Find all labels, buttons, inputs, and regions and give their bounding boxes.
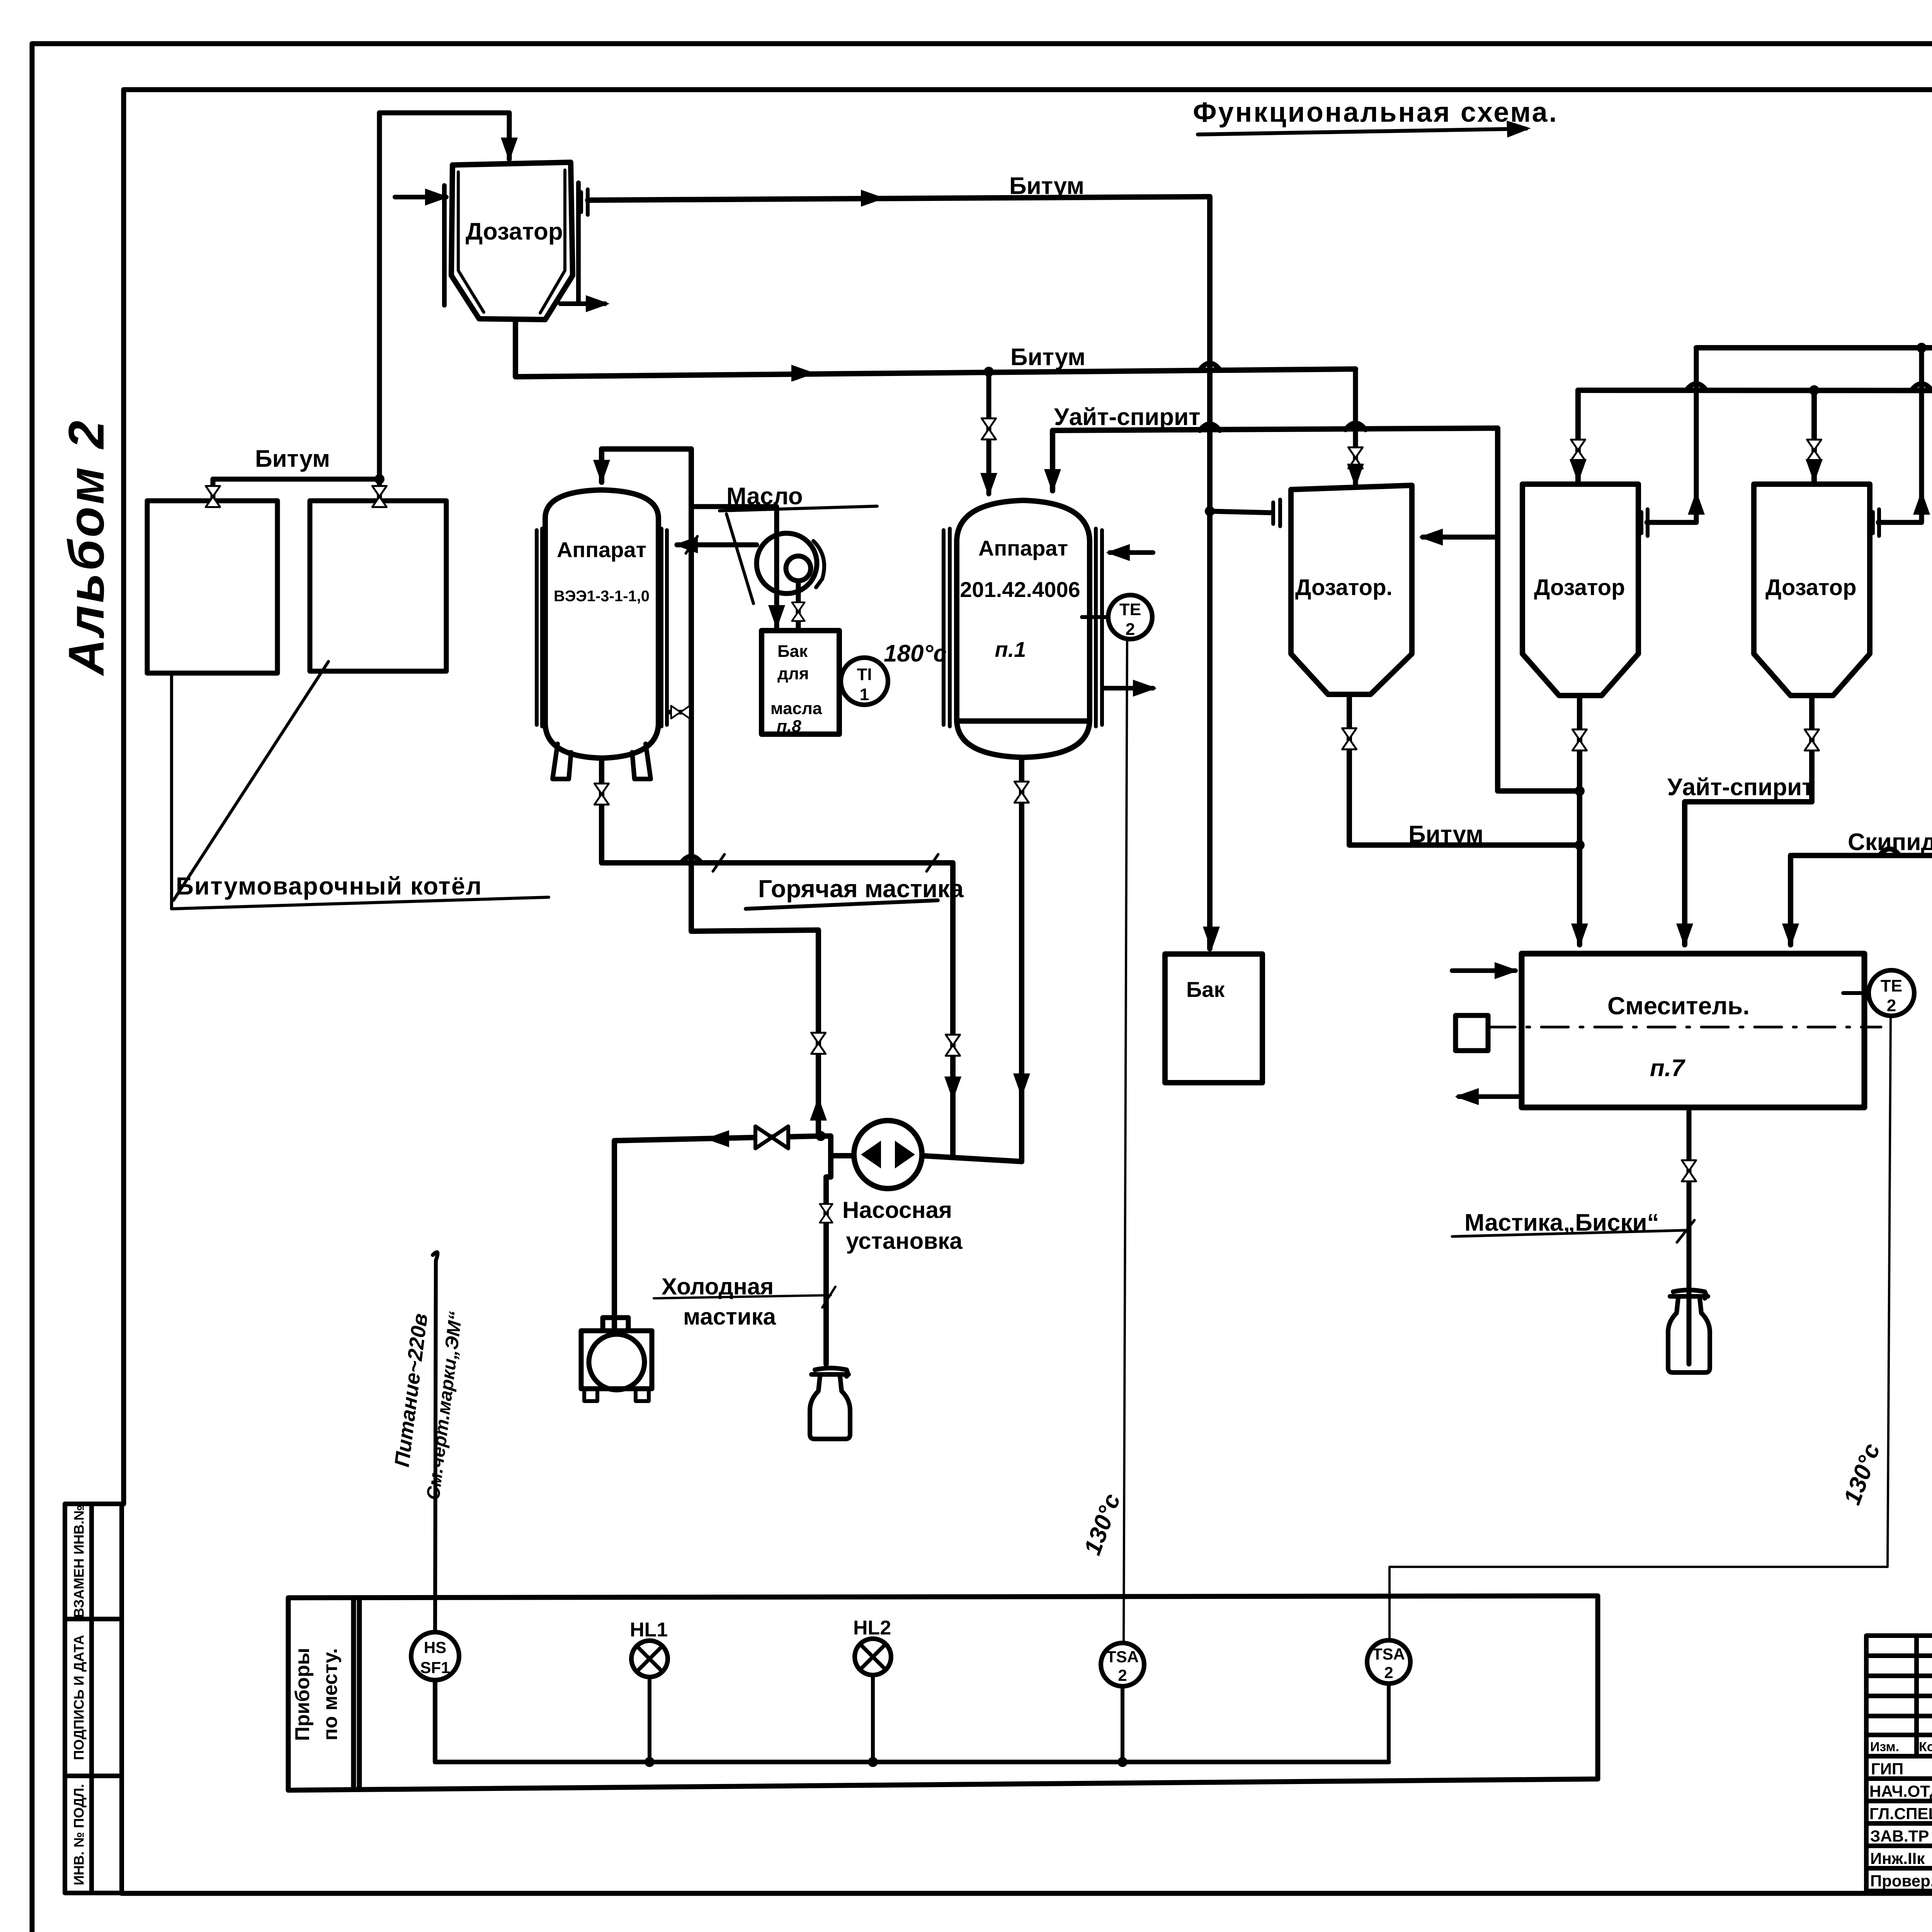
wire Битум manifold to kettles (213, 479, 379, 501)
oil snail pump (757, 533, 824, 594)
local instruments box Приборы по месту (288, 1596, 1598, 1790)
svg-text:Битумоварочный котёл: Битумоварочный котёл (176, 872, 482, 900)
wire outlet stub from D1 chute (560, 301, 605, 306)
wire oil jacket outlet with valve to riser (670, 710, 691, 714)
wire TE-2 mixer sensing line down and to TSA2 (1389, 1016, 1891, 1641)
dosator D1 vessel (444, 162, 578, 320)
agitator shaft dash-dot line (1488, 1026, 1881, 1029)
wire suction line with gate valve to weigher (614, 1136, 821, 1330)
bottle (cold mastic sample) (810, 1368, 850, 1439)
tank Бак (1165, 954, 1262, 1083)
D1 right nozzle flange (581, 189, 588, 215)
svg-text:HS: HS (424, 1638, 446, 1656)
svg-text:Колуч: Колуч (1919, 1740, 1932, 1754)
svg-text:Дозатор: Дозатор (1534, 575, 1625, 600)
svg-text:п.1: п.1 (995, 637, 1026, 662)
wire D5 bottom outlet Скипидар to mixer (1791, 699, 1932, 945)
svg-text:установка: установка (846, 1228, 963, 1254)
svg-text:SF1: SF1 (420, 1658, 450, 1677)
vessel Аппарат 201.42.4006 п.1 (944, 500, 1102, 757)
wire D4 top inlet from lower WS line (1811, 390, 1817, 481)
svg-text:по месту.: по месту. (319, 1648, 342, 1741)
valve on kettle 1 feed (206, 486, 220, 507)
valve on recirculation riser (811, 1033, 825, 1054)
wire branch from riser into oil tank (691, 507, 777, 628)
dosator D3 vessel (1522, 484, 1638, 696)
svg-text:TE: TE (1881, 976, 1902, 995)
valve on kettle 2 feed (372, 486, 386, 507)
instrument HS SF1 circle (411, 1632, 459, 1680)
svg-text:ЗАВ.ТР: ЗАВ.ТР (1870, 1827, 1929, 1845)
weigher device (circle in square) (581, 1318, 652, 1401)
svg-text:масла: масла (770, 699, 822, 718)
svg-text:1: 1 (860, 685, 869, 704)
wire riser from manifold to dosator 1 feed (379, 113, 509, 479)
svg-text:Скипидар: Скипидар (1848, 829, 1932, 855)
svg-text:Битум: Битум (1010, 344, 1085, 371)
instrument TI-1 circle (841, 658, 888, 705)
svg-text:Битум: Битум (1408, 821, 1483, 848)
node tee at riser bottom (816, 1131, 826, 1141)
hop of Скипидар line over TE riser (1879, 849, 1900, 855)
svg-text:Битум: Битум (1009, 173, 1084, 199)
hop of Битум2 over x3131 (1200, 363, 1220, 370)
svg-text:Изм.: Изм. (1870, 1740, 1899, 1754)
hop of hot mastic line over riser x1789 (681, 856, 701, 863)
dosator D4 vessel (1754, 484, 1870, 696)
wire stub from riser into dosator D2 right side (1423, 535, 1498, 540)
arrow down on hot mastic drop (944, 1077, 961, 1100)
svg-text:ВЭЭ1-3-1-1,0: ВЭЭ1-3-1-1,0 (554, 588, 650, 605)
underline of title with arrow (1198, 129, 1526, 134)
wire D3 bottom outlet to mixer (1577, 696, 1582, 945)
alarm TSA-2 (left) (1101, 1643, 1144, 1686)
svg-text:TE: TE (1119, 600, 1141, 619)
svg-text:TSA: TSA (1106, 1648, 1139, 1666)
wire recirculation feed into ВЭЭ1 top (602, 449, 818, 1136)
wire instrument bus (435, 1760, 1389, 1764)
valve on ВЭЭ1 bottom outlet (594, 784, 609, 805)
node junctions on D3 outlet (1575, 786, 1585, 796)
svg-text:Уайт-спирит: Уайт-спирит (1667, 774, 1814, 801)
wire ВЭЭ1 bottom outlet hot mastic line (602, 758, 953, 1157)
svg-text:Смеситель.: Смеситель. (1607, 992, 1750, 1020)
wire branch to dosator D2 flange (1210, 511, 1272, 513)
svg-text:Альбом 2: Альбом 2 (58, 418, 114, 676)
wire inlet stub into D1 left (395, 195, 446, 199)
wire mixer bottom outlet to bottle (1687, 1107, 1692, 1364)
svg-text:2: 2 (1384, 1663, 1393, 1682)
svg-text:Приборы: Приборы (291, 1648, 314, 1741)
wire apparatus 201 bottom outlet down to pump line (1019, 758, 1024, 1162)
wire D2 bottom outlet Битум to mixer (1349, 694, 1580, 845)
vessel Аппарат ВЭЭ1-3-1-1.0 (537, 490, 667, 779)
bitumen kettle rectangle 1 (147, 501, 277, 673)
svg-text:ПОДПИСЬ И ДАТА: ПОДПИСЬ И ДАТА (71, 1635, 87, 1760)
svg-text:Бак: Бак (777, 642, 808, 661)
mixer Смеситель п.7 (1522, 954, 1864, 1107)
svg-text:Бак: Бак (1186, 977, 1225, 1002)
wire inlet stub arrow into mixer left (1452, 968, 1515, 973)
svg-text:Битум: Битум (255, 446, 330, 472)
wire oil pump down through valve to oil tank (796, 581, 801, 631)
svg-text:п.8: п.8 (777, 717, 801, 736)
wire D3 top inlet from lower WS line (1575, 390, 1581, 481)
svg-text:Функциональная схема.: Функциональная схема. (1193, 97, 1558, 128)
wire oil pump discharge to ВЭЭ1 (677, 543, 757, 548)
svg-text:ГИП: ГИП (1871, 1760, 1903, 1778)
dosator D2 vessel (1291, 485, 1412, 694)
wire D3 right flange riser to upper WS line (1647, 348, 1696, 522)
svg-text:НАЧ.ОТД.: НАЧ.ОТД. (1869, 1782, 1932, 1800)
alarm TSA-2 (right) (1367, 1640, 1410, 1684)
wire lower white spirit line (1578, 390, 1932, 391)
wire TE-2 sensing line down to TSA (1124, 639, 1127, 1643)
wire outlet stub arrow from mixer left bottom (1459, 1094, 1522, 1099)
svg-text:HL2: HL2 (853, 1617, 891, 1639)
tank Бак для масла п.8 (762, 631, 839, 734)
node manifold junction (374, 474, 384, 484)
svg-text:Уайт-спирит: Уайт-спирит (1054, 404, 1201, 430)
pump unit Насосная установка circle (854, 1121, 922, 1189)
gate valve on suction line (755, 1126, 788, 1148)
svg-text:TSA: TSA (1372, 1645, 1405, 1663)
wire D4 right flange riser to upper WS line (1878, 348, 1922, 522)
svg-text:Дозатор: Дозатор (1765, 575, 1857, 600)
wire Битум line 1 from D1 nozzle to drop (588, 197, 1210, 200)
wire Битум line 2 from D1 bottom (515, 321, 1355, 377)
wire outlet stub arrow from apparatus 201 right (1104, 686, 1153, 690)
svg-text:ИНВ. № ПОДЛ.: ИНВ. № ПОДЛ. (71, 1784, 87, 1885)
svg-text:201.42.4006: 201.42.4006 (960, 577, 1080, 602)
valve on Битум2 end before D2 (1353, 369, 1358, 486)
arrow up on recirculation riser (810, 1097, 827, 1121)
instrument TE-2 on apparatus 201 (1082, 615, 1109, 619)
svg-text:2: 2 (1887, 996, 1896, 1015)
svg-text:TI: TI (857, 665, 872, 684)
bitumen kettle rectangle 2 (310, 501, 446, 671)
wire inlet stub arrow into apparatus 201 right (1110, 550, 1153, 555)
svg-text:Провер.: Провер. (1870, 1872, 1932, 1890)
svg-text:Аппарат: Аппарат (557, 537, 646, 562)
svg-text:п.7: п.7 (1650, 1055, 1685, 1082)
svg-text:ВЗАМЕН ИНВ.№: ВЗАМЕН ИНВ.№ (71, 1505, 87, 1618)
svg-text:2: 2 (1126, 620, 1135, 639)
svg-text:мастика: мастика (683, 1304, 776, 1330)
wire branch down to apparatus 201 top (986, 372, 992, 494)
valve on hot mastic drop (946, 1035, 960, 1056)
svg-text:ГЛ.СПЕЦ.: ГЛ.СПЕЦ. (1869, 1804, 1932, 1823)
bottle (Биски sample) (1668, 1290, 1710, 1373)
left margin stamp column boxes (65, 1504, 122, 1893)
svg-text:Насосная: Насосная (842, 1197, 952, 1223)
svg-text:Дозатор.: Дозатор. (1295, 575, 1393, 600)
agitator motor box (1456, 1015, 1488, 1051)
svg-text:Аппарат: Аппарат (978, 536, 1068, 560)
svg-text:HL1: HL1 (630, 1619, 668, 1641)
svg-text:Дозатор: Дозатор (466, 218, 563, 245)
wire upper white spirit line (1696, 345, 1932, 350)
svg-text:2: 2 (1118, 1666, 1127, 1684)
node junction to D2 flange (1205, 506, 1215, 516)
crossing tick oil line over riser (686, 536, 938, 871)
wire pump left port tee (821, 1136, 854, 1364)
svg-text:для: для (777, 664, 809, 683)
node branch to apparatus 201 (984, 367, 994, 377)
wire white spirit line into apparatus 201 (1053, 428, 1580, 791)
svg-text:Инж.IIк: Инж.IIк (1870, 1849, 1925, 1867)
wire D4 bottom outlet white spirit to mixer (1685, 696, 1812, 945)
wire pump discharge line to apparatus 201 drop (922, 1156, 1022, 1162)
svg-text:180°c: 180°c (884, 640, 947, 667)
wire vertical drop x=3131 to tank Бак (1207, 197, 1213, 949)
wire power supply 220V line (433, 1252, 438, 1632)
instrument TE-2 on mixer (1843, 991, 1869, 995)
hops of white spirit line over verticals (1200, 424, 1220, 430)
title block signature table (1866, 1636, 1932, 1891)
svg-text:Горячая мастика: Горячая мастика (758, 875, 964, 903)
valve on bottle leg (820, 1204, 833, 1223)
